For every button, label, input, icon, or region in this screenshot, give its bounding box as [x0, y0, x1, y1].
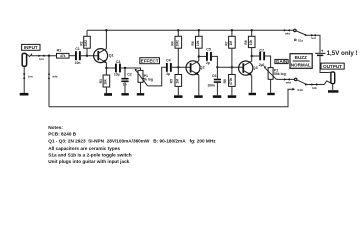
top rail connector (wht)	[284, 29, 290, 35]
wire node A down to bottom rail	[48, 56, 50, 107]
svg-text:10n: 10n	[75, 61, 81, 65]
svg-text:S1a and S1b is a 2-pole toggle: S1a and S1b is a 2-pole toggle switch	[48, 153, 131, 158]
capacitor C2	[121, 68, 131, 93]
svg-text:brn: brn	[39, 57, 44, 61]
svg-text:EFFECT: EFFECT	[141, 59, 159, 64]
connector (wht) on down wire	[48, 74, 58, 79]
svg-text:470k: 470k	[229, 77, 233, 85]
svg-text:NORMAL: NORMAL	[291, 63, 311, 68]
svg-text:BUZZ: BUZZ	[295, 55, 307, 60]
capacitor C7	[252, 48, 271, 67]
resistor R1	[57, 48, 70, 58]
svg-text:R2: R2	[79, 41, 83, 45]
svg-text:5k log: 5k log	[143, 78, 153, 82]
ground below R8	[228, 95, 237, 98]
svg-text:PCB: 8240 B: PCB: 8240 B	[48, 132, 76, 137]
svg-text:50k log: 50k log	[274, 72, 286, 76]
resistor R5	[170, 67, 182, 95]
svg-text:Q1: Q1	[109, 54, 114, 58]
wire C4 to Q2 base	[172, 66, 191, 68]
svg-text:Notes:: Notes:	[48, 125, 63, 130]
svg-text:S1a: S1a	[298, 38, 304, 42]
svg-text:R9: R9	[244, 40, 248, 44]
svg-text:blk: blk	[312, 86, 317, 90]
connector (brn) on input wire	[38, 55, 44, 62]
junction Q1 emitter node	[105, 67, 107, 69]
switch S1a	[294, 29, 307, 42]
svg-text:C1: C1	[75, 47, 80, 51]
svg-text:OUTPUT: OUTPUT	[323, 64, 342, 69]
svg-text:R1: R1	[57, 48, 62, 52]
resistor R4	[171, 29, 182, 67]
transistor Q2	[186, 61, 205, 76]
wire input tip to node A	[32, 55, 57, 57]
svg-text:2µ: 2µ	[166, 72, 170, 76]
svg-text:S1b: S1b	[297, 88, 303, 92]
svg-text:GAIN: GAIN	[276, 59, 288, 64]
top supply rail	[87, 29, 294, 31]
svg-text:1,5V only !: 1,5V only !	[327, 50, 358, 57]
svg-text:All capacitors are ceramic typ: All capacitors are ceramic types	[48, 146, 120, 151]
wire S1a to battery	[305, 35, 320, 53]
svg-text:2M2: 2M2	[176, 40, 180, 47]
svg-text:100n: 100n	[207, 84, 215, 88]
connector (red)	[311, 34, 316, 40]
capacitor C3	[114, 60, 121, 76]
svg-text:C4: C4	[166, 59, 171, 63]
potentiometer P2	[264, 66, 286, 93]
junction Q1 collector / supply rail	[105, 29, 107, 31]
svg-text:R6: R6	[191, 41, 195, 45]
ground below C2	[121, 93, 128, 95]
junction C6 tap node	[216, 66, 218, 68]
wire S1b to output jack	[306, 84, 325, 86]
junction Q2 collector node	[198, 55, 200, 57]
resistor R8	[223, 67, 235, 95]
wire jack sleeve down	[23, 66, 25, 93]
node R2/base	[86, 55, 88, 57]
Q3 emitter wire down to ground	[251, 75, 253, 93]
wire P2 wiper to S1b	[276, 78, 294, 80]
svg-text:Q2: Q2	[200, 66, 205, 70]
Q1 emitter wire down	[105, 63, 107, 68]
junction Q3 base node	[231, 66, 233, 68]
resistor R2	[79, 30, 90, 55]
svg-text:R8: R8	[223, 79, 227, 83]
resistor R6	[191, 29, 202, 56]
ground below input jack	[20, 93, 29, 96]
svg-text:wht: wht	[51, 74, 57, 78]
svg-text:brn: brn	[28, 75, 33, 79]
svg-text:R5: R5	[170, 79, 174, 83]
Q2 emitter wire down to ground	[198, 75, 200, 96]
capacitor C1	[75, 47, 81, 65]
ground below R5	[174, 95, 183, 98]
INPUT label box	[22, 44, 40, 50]
svg-text:1M: 1M	[176, 79, 180, 84]
resistor R9	[244, 29, 255, 56]
connector (wht) on S1b wire	[284, 78, 291, 84]
svg-text:10k: 10k	[104, 79, 108, 85]
notes text	[48, 125, 216, 164]
svg-text:R7: R7	[224, 41, 228, 45]
junction Q3 collector node	[251, 55, 253, 57]
svg-text:red: red	[311, 36, 316, 40]
svg-text:C6: C6	[212, 74, 217, 78]
tick to output jack	[324, 81, 330, 84]
battery BT1 1.5V	[315, 48, 357, 72]
junction C2 tap node	[124, 67, 126, 69]
Q3 collector wire up	[251, 56, 253, 61]
resistor R7	[224, 29, 235, 67]
output jack J2	[331, 72, 335, 90]
connector (blk)	[311, 83, 317, 90]
wire C1 to Q1 base	[81, 55, 99, 57]
ground below C6	[213, 95, 222, 98]
capacitor C4	[166, 59, 172, 77]
EFFECT label box	[140, 58, 160, 64]
svg-text:2µ2: 2µ2	[259, 63, 265, 67]
svg-text:10k: 10k	[196, 40, 200, 46]
svg-text:Q3: Q3	[253, 66, 258, 70]
svg-text:10µ: 10µ	[114, 72, 120, 76]
wire Q1 emitter to C3	[106, 67, 115, 69]
ground below P1	[137, 93, 144, 95]
switch S1b	[295, 78, 308, 85]
svg-text:47k: 47k	[60, 54, 66, 58]
svg-text:wht: wht	[284, 31, 290, 35]
svg-text:R4: R4	[171, 41, 175, 45]
svg-text:Q1 - Q3: 2N 2923 Si-NPN 28V/: Q1 - Q3: 2N 2923 Si-NPN 28V/100mA/360mW …	[48, 139, 216, 144]
svg-text:2µ: 2µ	[206, 61, 210, 65]
wire R1 to C1	[69, 55, 75, 57]
wire C3 to P1 top	[121, 68, 141, 70]
capacitor C5	[199, 48, 218, 68]
svg-text:Unit plugs into guitar with in: Unit plugs into guitar with input jack	[48, 159, 129, 164]
svg-text:1M: 1M	[229, 41, 233, 46]
Q2 collector wire up	[198, 56, 200, 61]
connector (brn) on sleeve wire	[23, 74, 33, 79]
GAIN label box	[275, 59, 288, 64]
BUZZ / NORMAL label box	[290, 54, 312, 69]
potentiometer P1	[135, 69, 153, 93]
svg-text:C2: C2	[127, 73, 132, 77]
ground below R3	[104, 93, 112, 96]
capacitor C6	[207, 67, 221, 95]
ground below output jack	[328, 90, 338, 93]
OUTPUT label box	[321, 63, 344, 69]
input jack J1	[22, 53, 31, 66]
svg-text:+: +	[321, 48, 324, 53]
wire Q3 base row	[217, 66, 243, 68]
bottom rail wire	[49, 89, 293, 107]
svg-text:INPUT: INPUT	[24, 45, 38, 50]
P1 wiper wire to C4	[148, 67, 166, 86]
transistor Q1	[94, 49, 114, 64]
svg-text:R3: R3	[99, 79, 103, 83]
arrow to S1b	[292, 88, 295, 91]
resistor R3	[99, 68, 110, 93]
node A	[48, 55, 50, 57]
svg-text:2M2: 2M2	[84, 40, 88, 47]
svg-text:C5: C5	[206, 48, 211, 52]
transistor Q3	[239, 61, 258, 76]
svg-text:wht: wht	[285, 80, 291, 84]
ground below P2	[267, 93, 274, 95]
Q1 collector wire up to rail	[105, 30, 107, 48]
junction Q2 base node	[177, 66, 179, 68]
svg-text:10k: 10k	[249, 40, 253, 46]
